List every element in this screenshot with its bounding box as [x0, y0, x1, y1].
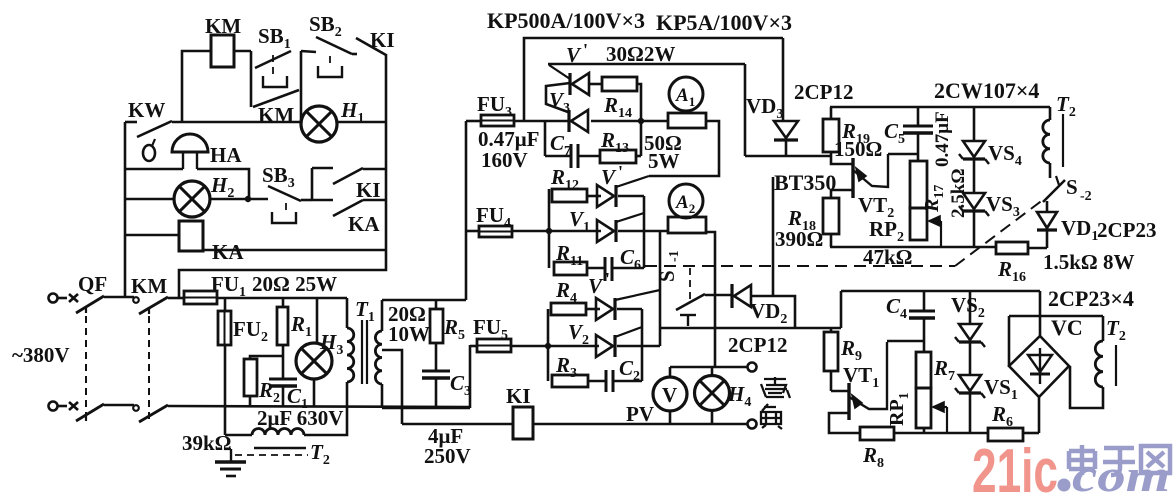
- wire: KW row / H1 row: [125, 121, 137, 124]
- potentiometer RP1: [916, 388, 931, 428]
- wire KM coil left to rail: [182, 51, 211, 122]
- svg-text:KA: KA: [348, 212, 380, 236]
- capacitor C6: [604, 257, 607, 281]
- transformer T2 (right): [1102, 316, 1105, 341]
- transformer T1 core: [361, 320, 363, 384]
- resistor R8: [860, 427, 894, 440]
- svg-text:2CP12: 2CP12: [728, 333, 788, 357]
- wire: FU riser: [465, 121, 468, 300]
- wire: trigger bottom rail: [830, 246, 996, 249]
- wire VD2 to R9 hook: [751, 296, 795, 329]
- wire H1 right to rail: [337, 121, 386, 124]
- wire to SB2: [301, 51, 316, 52]
- wire H2 to junction: [210, 198, 268, 201]
- resistor R12: [552, 189, 587, 202]
- zener VS1: [959, 375, 981, 391]
- resistor R4: [551, 303, 586, 315]
- pulse transformer T2 (upper): [1049, 107, 1052, 120]
- wire after FU1: [217, 297, 347, 300]
- wire: V' gate row: [548, 63, 745, 66]
- wire KM to FU1: [168, 297, 184, 300]
- wire: group2 left bracket: [548, 189, 551, 268]
- svg-text:-2: -2: [1080, 189, 1092, 204]
- terminal: phase input top: [49, 294, 58, 303]
- wire HA right, down to H2 node: [197, 169, 249, 199]
- wire A2 down to load bus: [706, 232, 715, 367]
- wire VC bottom to R6: [1038, 397, 1041, 433]
- wire: SB1/KM box right side: [300, 51, 303, 122]
- wire VT1 base1 to R8: [829, 413, 860, 433]
- svg-text:0.47μF: 0.47μF: [932, 111, 953, 167]
- svg-text:250V: 250V: [424, 444, 471, 468]
- switch S-1: [676, 294, 705, 310]
- svg-text:1.5kΩ 8W: 1.5kΩ 8W: [1043, 250, 1135, 274]
- resistor R13: [579, 155, 600, 158]
- wire: SB1/KM box left side: [250, 51, 253, 107]
- wire: snubber row group3: [544, 121, 547, 156]
- fuse FU1: [184, 291, 217, 304]
- wire QF to KM contact: [104, 296, 134, 299]
- linkage dashed QF: [85, 316, 87, 418]
- resistor R14: [589, 83, 602, 86]
- wire: bottom rail right section: [894, 432, 988, 435]
- wire SB3 to KI/KA bracket: [301, 199, 312, 202]
- voltmeter PV: [669, 367, 672, 377]
- resistor R6: [988, 428, 1023, 441]
- wire: top gate bus: [524, 38, 783, 121]
- svg-text:V: V: [566, 43, 582, 67]
- wire C4 bottom to emitter riser: [887, 340, 924, 343]
- wire: bottom to FU5 feed: [382, 407, 470, 410]
- lamp H1: [301, 106, 337, 142]
- fuse FU4: [466, 230, 479, 233]
- svg-text:VC: VC: [1051, 315, 1083, 340]
- ammeter A1: [669, 77, 703, 111]
- transformer T1 primary: [346, 298, 349, 328]
- wire: A2 branch vertical: [659, 231, 662, 346]
- wire: control left rail: [124, 122, 127, 297]
- svg-text:V: V: [588, 274, 604, 298]
- svg-text:2CP12: 2CP12: [794, 80, 854, 104]
- wire VC left to T2 rail: [1008, 316, 1011, 366]
- resistor R19: [830, 107, 833, 119]
- contact KI (NC, top): [352, 53, 357, 56]
- thyristor V3 (main): [546, 83, 570, 112]
- fuse FU5: [470, 345, 477, 348]
- svg-text:KM: KM: [205, 14, 241, 38]
- capacitor C2: [605, 370, 608, 392]
- svg-text:30Ω2W: 30Ω2W: [606, 42, 675, 66]
- capacitor C3: [422, 370, 450, 373]
- transformer T1 secondary: [381, 300, 384, 331]
- svg-text:S: S: [1066, 175, 1078, 199]
- UJT VT2: [851, 158, 854, 198]
- wire VT2 emitter to C5/R17 node: [888, 153, 918, 156]
- lamp H4: [711, 367, 714, 376]
- capacitor C4: [923, 291, 926, 311]
- mark x top: [69, 294, 78, 302]
- svg-text:47kΩ: 47kΩ: [863, 245, 913, 269]
- ground: [224, 448, 231, 450]
- svg-text:PV: PV: [626, 402, 654, 426]
- label 负载 (load): [761, 377, 790, 429]
- contactor coil KM: [211, 35, 234, 67]
- capacitor C7: [570, 144, 573, 168]
- svg-text:KI: KI: [370, 28, 395, 52]
- T1 center tap to KI line: [382, 350, 402, 424]
- thyristor V' (pilot, group2): [614, 185, 617, 207]
- fuse FU2: [224, 298, 227, 311]
- svg-text:S: S: [655, 270, 679, 282]
- svg-text:160V: 160V: [481, 148, 528, 172]
- thyristor V' (pilot, group3): [549, 65, 570, 79]
- svg-text:V: V: [601, 165, 617, 189]
- diode VD3: [782, 38, 785, 121]
- svg-text:2CW107×4: 2CW107×4: [934, 78, 1039, 103]
- fuse FU3: [466, 120, 481, 123]
- thyristor V1 (main): [549, 230, 601, 233]
- svg-text:2μF 630V: 2μF 630V: [257, 406, 343, 430]
- wire: group2 right bracket: [618, 195, 644, 198]
- bridge rectifier VC: [1009, 336, 1069, 397]
- contact KA: [312, 199, 333, 202]
- wire KI to lamp row: [533, 423, 747, 426]
- svg-text:2CP23: 2CP23: [1097, 218, 1157, 242]
- capacitor C1: [269, 378, 297, 381]
- svg-text:KI: KI: [356, 178, 381, 202]
- svg-text:QF: QF: [78, 272, 107, 296]
- wire: control right rail: [385, 54, 388, 250]
- wire A1 to gate row 2: [649, 121, 719, 176]
- switch S-2: [1049, 163, 1052, 178]
- wire S-1 to VD2: [705, 294, 733, 297]
- svg-text:BT350: BT350: [774, 170, 836, 195]
- svg-text:21ic: 21ic: [972, 437, 1058, 493]
- resistor R17: [910, 161, 927, 208]
- svg-text:KM: KM: [131, 274, 167, 298]
- svg-text:2CP23×4: 2CP23×4: [1048, 286, 1134, 311]
- T2 core line: [254, 447, 306, 449]
- svg-text:KW: KW: [128, 98, 165, 122]
- terminal: load top: [748, 363, 757, 372]
- terminal: load bottom: [748, 420, 757, 429]
- zener VS2: [969, 291, 972, 324]
- wire: KA coil row: [125, 234, 179, 237]
- wire QF2 to KM2: [104, 404, 134, 407]
- wire: KI/KA bracket: [311, 168, 314, 200]
- UJT VT1: [831, 390, 849, 393]
- svg-text:com: com: [1072, 450, 1170, 493]
- pushbutton SB1: [255, 51, 291, 68]
- wire: group1 right bracket: [617, 308, 642, 311]
- wire: pulse line to V' bus: [744, 64, 747, 156]
- horn HA: [172, 134, 208, 152]
- diode VD1: [1046, 201, 1049, 212]
- wire V2 to vertical: [617, 345, 660, 348]
- svg-text:': ': [605, 269, 610, 289]
- svg-text:KM: KM: [258, 103, 294, 127]
- svg-text:20Ω 25W: 20Ω 25W: [252, 272, 337, 296]
- wire group3 node to A1: [641, 120, 668, 123]
- wire: group1 left bracket: [547, 309, 550, 381]
- wire V1 to A2: [618, 230, 668, 233]
- svg-text:~380V: ~380V: [12, 343, 70, 367]
- svg-text:V: V: [662, 383, 677, 407]
- wire VC top to rail: [1039, 291, 1042, 336]
- svg-text:KP5A/100V×3: KP5A/100V×3: [656, 10, 792, 35]
- svg-text:': ': [618, 162, 623, 182]
- svg-text:5W: 5W: [648, 149, 680, 173]
- wire: firing supply to VT1 section: [660, 327, 841, 330]
- resistor R5: [435, 300, 438, 309]
- dashed linkage RP2/S-2: [645, 265, 955, 267]
- thyristor V2 (main): [548, 345, 599, 348]
- relay coil KA: [179, 221, 203, 251]
- resistor R7: [923, 341, 926, 352]
- svg-text:KA: KA: [212, 240, 244, 264]
- watermark 电子网: [1069, 445, 1170, 475]
- wire T2 bottom to VC right: [1070, 366, 1103, 408]
- svg-text:HA: HA: [210, 143, 242, 167]
- breaker QF pole 2: [76, 404, 104, 421]
- wire KA coil bottom to rail: [203, 249, 386, 252]
- resistor R18: [831, 189, 852, 192]
- svg-text:KI: KI: [506, 384, 531, 408]
- thyristor V' (pilot, group1): [613, 298, 616, 320]
- capacitor C5: [917, 107, 920, 126]
- terminal: phase input bottom: [49, 402, 58, 411]
- node: group3 output: [638, 118, 644, 124]
- wire: trigger top rail: [830, 106, 1050, 109]
- wire: load top row: [670, 366, 747, 369]
- resistor R2: [250, 356, 283, 359]
- wire R14 to node: [637, 84, 641, 156]
- zener VS4: [973, 107, 976, 141]
- diode VD2: [730, 284, 733, 308]
- contact KI (parallel): [312, 167, 333, 170]
- wire: pulse riser to VD2 row: [772, 177, 775, 296]
- wire: lower trigger rail: [841, 290, 1040, 293]
- linkage dashed KM: [148, 316, 150, 419]
- watermark .com: [1058, 479, 1071, 492]
- wire: H2 row: [125, 198, 174, 201]
- thermal switch KW: [137, 121, 172, 137]
- svg-text:KP500A/100V×3: KP500A/100V×3: [487, 8, 645, 33]
- resistor R11: [554, 262, 587, 275]
- mark x bottom: [69, 402, 78, 410]
- wire: HA row: [125, 168, 183, 171]
- svg-text:10W: 10W: [388, 322, 430, 346]
- contact KM (self-hold): [253, 90, 299, 107]
- pushbutton SB2 (NC): [316, 37, 352, 54]
- node: FU5 junction: [545, 343, 551, 349]
- ammeter A2: [669, 184, 703, 218]
- pushbutton SB3 (NC): [268, 186, 301, 201]
- resistor R3: [552, 375, 588, 387]
- resistor R16: [996, 242, 1028, 254]
- svg-text:': ': [583, 40, 588, 60]
- dashed linkage S-1: [689, 268, 691, 303]
- svg-text:-1: -1: [667, 250, 682, 262]
- coil KI (relay): [402, 423, 513, 426]
- wire rail down / over to power line: [179, 250, 386, 298]
- wire KM coil right to SB1 box: [234, 50, 251, 53]
- choke T2 (lower): [224, 407, 227, 435]
- wire: secondary top to FU feed: [382, 299, 466, 302]
- breaker QF pole 1: [76, 296, 104, 313]
- svg-text:150Ω: 150Ω: [834, 137, 882, 161]
- lamp H3: [316, 298, 319, 344]
- wire VD3 row: [745, 155, 830, 158]
- zener VS3: [963, 193, 985, 209]
- node: FU4 junction: [546, 228, 552, 234]
- resistor R9: [830, 328, 833, 332]
- wire: bottom power line: [168, 406, 470, 407]
- node: H2/SB3 junction: [245, 196, 251, 202]
- contactor main contact KM pole 2: [133, 405, 139, 411]
- lamp H2: [174, 181, 210, 217]
- contactor main contact KM pole 1: [133, 297, 139, 303]
- svg-text:390Ω: 390Ω: [775, 227, 823, 251]
- resistor R1: [282, 298, 285, 307]
- potentiometer RP2: [910, 208, 927, 240]
